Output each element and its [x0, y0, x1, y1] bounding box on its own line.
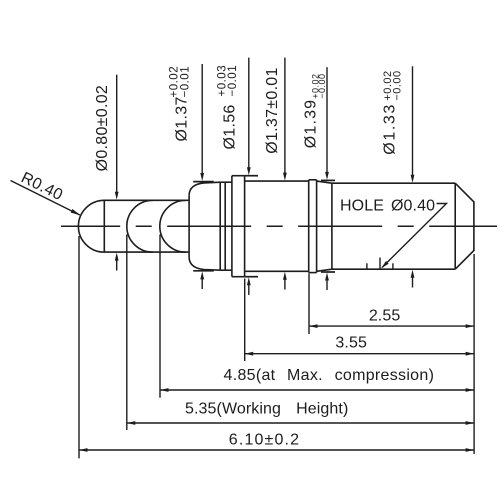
svg-text:3.55: 3.55	[335, 334, 367, 351]
svg-text:5.35(Working Height): 5.35(Working Height)	[185, 400, 348, 417]
svg-text:−0.01: −0.01	[227, 65, 239, 97]
svg-text:−0.01: −0.01	[179, 66, 191, 98]
svg-text:Ø1.37±0.01: Ø1.37±0.01	[264, 67, 281, 154]
svg-text:2.55: 2.55	[369, 308, 401, 325]
svg-text:−0.00: −0.00	[392, 70, 404, 100]
svg-text:Ø1.33: Ø1.33	[382, 103, 399, 155]
svg-text:Ø1.56: Ø1.56	[222, 104, 239, 149]
svg-text:Ø1.39: Ø1.39	[302, 99, 319, 149]
svg-text:Ø1.37: Ø1.37	[174, 96, 191, 141]
svg-text:6.10±0.2: 6.10±0.2	[229, 432, 300, 449]
svg-text:Ø0.80±0.02: Ø0.80±0.02	[94, 85, 111, 172]
svg-text:4.85(at Max. compression): 4.85(at Max. compression)	[224, 367, 435, 384]
svg-text:−0.00: −0.00	[317, 74, 327, 99]
svg-text:HOLE Ø0.40: HOLE Ø0.40	[340, 198, 435, 215]
